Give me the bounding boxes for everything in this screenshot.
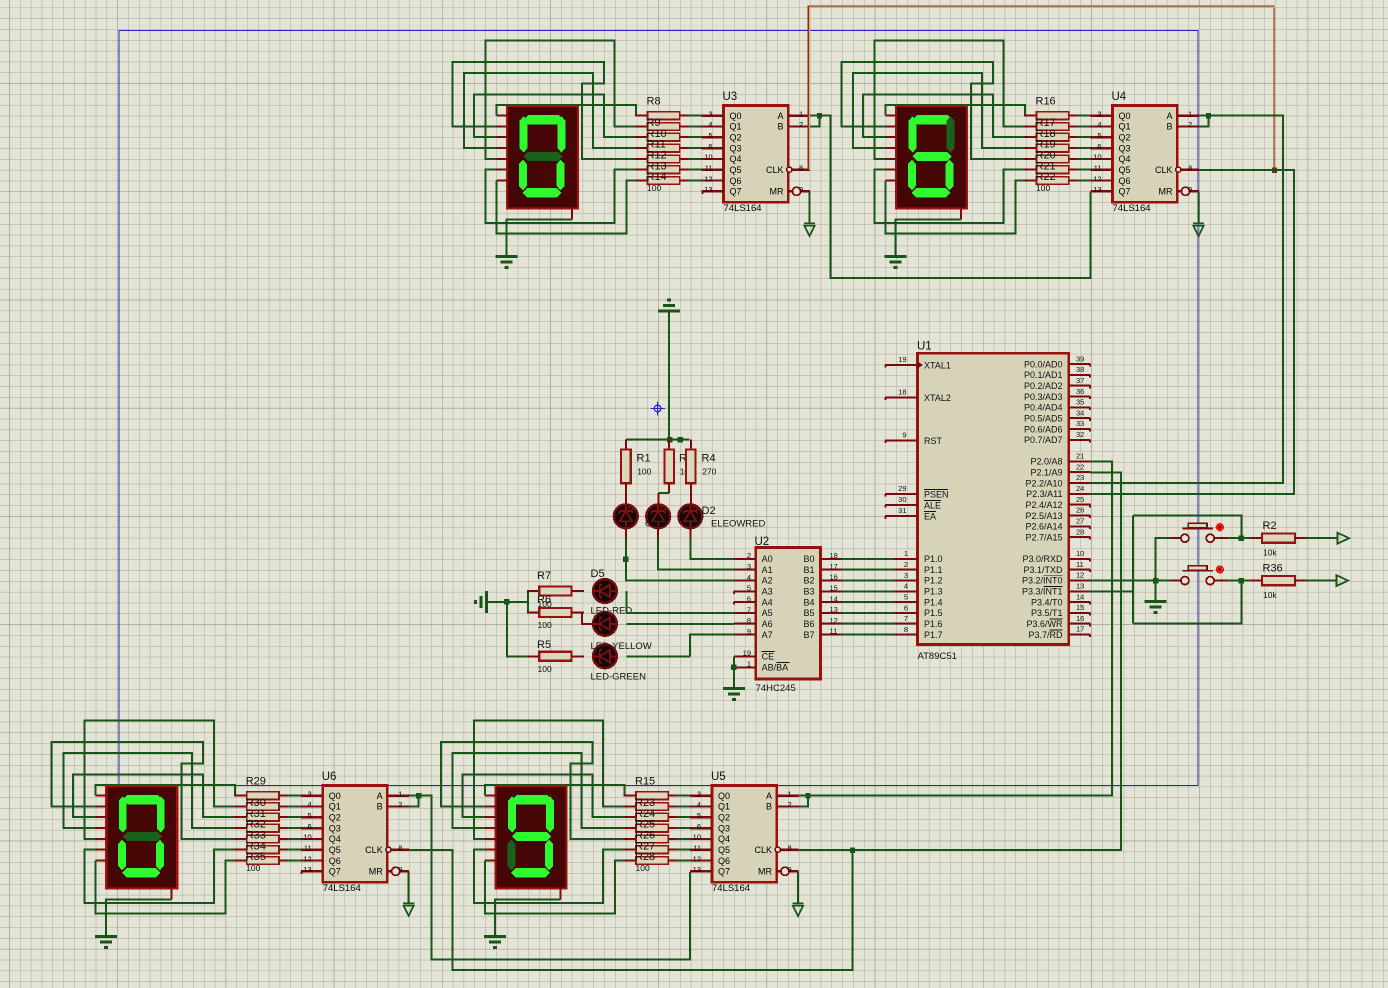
svg-text:10k: 10k xyxy=(1263,548,1277,558)
svg-text:10k: 10k xyxy=(1263,590,1277,600)
wire DISP2 pin6 to R row6 xyxy=(874,170,1023,224)
svg-text:Q1: Q1 xyxy=(329,802,341,812)
U1 pin 18 XTAL2 xyxy=(885,388,951,403)
svg-text:3: 3 xyxy=(308,789,312,798)
LED D5 (LED-RED) xyxy=(593,579,617,603)
wire DISP4 pin4 to R row4 xyxy=(453,753,624,828)
svg-text:P1.4: P1.4 xyxy=(924,597,943,607)
wire DISP4 pin6 to R row6 xyxy=(474,850,623,904)
svg-text:P3.4/T0: P3.4/T0 xyxy=(1031,597,1063,607)
wire DISP3 pin5 to R row2 xyxy=(85,721,234,839)
svg-text:Q7: Q7 xyxy=(730,187,742,197)
U1 pin 22 P2.1/A9 xyxy=(1030,462,1090,477)
junction P3.2 node xyxy=(1153,578,1158,583)
svg-text:R7: R7 xyxy=(537,570,551,582)
svg-text:B: B xyxy=(777,122,783,132)
svg-text:P2.0/A8: P2.0/A8 xyxy=(1030,457,1062,467)
svg-text:AT89C51: AT89C51 xyxy=(918,651,957,662)
svg-text:30: 30 xyxy=(898,495,906,504)
svg-text:R15: R15 xyxy=(635,775,655,787)
U1 pin 10 P3.0/RXD xyxy=(1022,549,1090,564)
U2 pin 15 B3 xyxy=(803,584,842,597)
svg-text:13: 13 xyxy=(1093,185,1101,194)
svg-text:5: 5 xyxy=(697,811,701,820)
svg-text:R8: R8 xyxy=(647,95,661,107)
wire U6 A-B tie xyxy=(409,796,419,807)
wire P2.1 to U5 CLK xyxy=(799,472,1122,850)
svg-text:2: 2 xyxy=(904,560,908,569)
svg-text:P0.6/AD6: P0.6/AD6 xyxy=(1024,424,1063,434)
U1 pin 3 P1.2 xyxy=(894,571,943,586)
svg-text:6: 6 xyxy=(1097,142,1101,151)
svg-text:B0: B0 xyxy=(803,554,814,564)
svg-text:RST: RST xyxy=(924,436,943,446)
wire DISP4 pin3 to R row3 xyxy=(462,775,623,818)
svg-text:R28: R28 xyxy=(635,851,655,863)
U1 pin 1 P1.0 xyxy=(894,549,943,564)
junction on D1 wire xyxy=(623,557,628,562)
svg-text:2: 2 xyxy=(398,800,402,809)
resistor network RN-U5 xyxy=(623,792,690,865)
svg-text:P3.5/T1: P3.5/T1 xyxy=(1031,608,1063,618)
svg-text:EA: EA xyxy=(924,512,936,522)
svg-text:5: 5 xyxy=(904,593,908,602)
U1 pin 31 EA xyxy=(885,506,936,521)
svg-text:MR: MR xyxy=(1159,187,1173,197)
svg-text:Q4: Q4 xyxy=(1119,154,1131,164)
svg-text:P0.5/AD5: P0.5/AD5 xyxy=(1024,414,1063,424)
svg-text:B: B xyxy=(1166,122,1172,132)
U2 pin 17 B1 xyxy=(803,562,842,575)
U1 pin 21 P2.0/A8 xyxy=(1030,452,1090,467)
svg-text:B4: B4 xyxy=(803,597,814,607)
LED D3 (middle of top trio) xyxy=(646,504,670,528)
svg-text:100: 100 xyxy=(538,620,552,630)
shift register U6 74LS164 xyxy=(301,786,409,895)
wire button1 to R2 xyxy=(1228,537,1251,539)
terminal arrow at R2 xyxy=(1338,533,1350,544)
svg-text:15: 15 xyxy=(1076,603,1084,612)
U1 pin 33 P0.6/AD6 xyxy=(1024,419,1091,434)
ground below display DISP2 xyxy=(885,257,907,268)
svg-text:A0: A0 xyxy=(762,554,773,564)
svg-text:P1.5: P1.5 xyxy=(924,608,943,618)
junction U4 A-B xyxy=(1206,113,1211,118)
shift register U5 74LS164 xyxy=(690,786,798,895)
wire P3.3 to button loops xyxy=(1091,516,1242,624)
U2 pin 11 B7 xyxy=(803,627,842,640)
svg-text:Q1: Q1 xyxy=(1119,122,1131,132)
svg-text:2: 2 xyxy=(788,800,792,809)
svg-text:A: A xyxy=(777,111,783,121)
svg-text:R16: R16 xyxy=(1036,95,1056,107)
svg-text:XTAL2: XTAL2 xyxy=(924,393,951,403)
resistor network RN-U6 xyxy=(234,792,301,865)
svg-text:39: 39 xyxy=(1076,354,1084,363)
wire DISP3 pin1 to R row1 xyxy=(96,785,235,796)
svg-text:A6: A6 xyxy=(762,619,773,629)
svg-text:12: 12 xyxy=(830,616,838,625)
svg-text:9: 9 xyxy=(398,865,402,874)
svg-text:8: 8 xyxy=(799,164,803,173)
svg-text:3: 3 xyxy=(904,571,908,580)
svg-text:Q5: Q5 xyxy=(1119,165,1131,175)
svg-text:MR: MR xyxy=(758,867,772,877)
svg-text:19: 19 xyxy=(743,649,751,658)
svg-text:CE: CE xyxy=(762,652,775,662)
svg-text:P3.1/TXD: P3.1/TXD xyxy=(1023,565,1063,575)
svg-text:CLK: CLK xyxy=(766,165,784,175)
svg-text:18: 18 xyxy=(898,388,906,397)
U2 pin 1 AB/BA xyxy=(734,660,789,673)
svg-text:8: 8 xyxy=(788,844,792,853)
svg-text:22: 22 xyxy=(1076,462,1084,471)
svg-text:Q1: Q1 xyxy=(730,122,742,132)
U1 pin 34 P0.5/AD5 xyxy=(1024,408,1091,423)
wire LED D2 anode to U2 A0 xyxy=(689,529,691,539)
svg-text:9: 9 xyxy=(799,185,803,194)
push button SW2 xyxy=(1171,565,1228,584)
wire DISP1 pin2 to R row5 xyxy=(453,62,635,159)
wire D6 anode to U2 A7 xyxy=(627,635,734,657)
svg-text:5: 5 xyxy=(747,584,751,593)
U2 pin 12 B6 xyxy=(803,616,842,629)
svg-text:10: 10 xyxy=(303,833,311,842)
U1 pin 6 P1.5 xyxy=(894,603,943,618)
LED D4 (LED-YELLOW) xyxy=(593,612,617,636)
wire P3.2 node up to button1 left xyxy=(1156,538,1171,580)
wire U2 CE to AB/BA xyxy=(733,656,735,667)
U1 pin 5 P1.4 xyxy=(894,593,943,608)
svg-text:6: 6 xyxy=(308,822,312,831)
svg-text:4: 4 xyxy=(308,800,312,809)
U2 pin 4 A2 xyxy=(734,573,773,586)
wire DISP3 pin3 to R row3 xyxy=(73,775,234,818)
wire U3 MR to power arrow xyxy=(809,191,811,223)
resistor network RN-U4 xyxy=(1024,112,1091,185)
wire DISP1 pin7 to R row7 xyxy=(497,181,635,234)
junction orange at U4 CLK net xyxy=(1272,167,1277,172)
svg-text:9: 9 xyxy=(747,627,751,636)
svg-text:MR: MR xyxy=(770,187,784,197)
svg-text:13: 13 xyxy=(693,865,701,874)
ground left of R7 (rotated) xyxy=(476,591,487,613)
svg-text:R6: R6 xyxy=(537,594,551,606)
wire R36 to terminal xyxy=(1306,580,1336,582)
ground below display DISP3 xyxy=(95,937,117,948)
svg-text:8: 8 xyxy=(747,616,751,625)
svg-text:4: 4 xyxy=(697,800,701,809)
U1 pin 11 P3.1/TXD xyxy=(1023,560,1090,575)
U2 pin 18 B0 xyxy=(803,551,842,564)
svg-text:P0.1/AD1: P0.1/AD1 xyxy=(1024,370,1063,380)
junction left ground node xyxy=(504,599,509,604)
wire DISP2 pin4 to R row4 xyxy=(853,73,1024,148)
svg-text:100: 100 xyxy=(647,183,661,193)
svg-text:13: 13 xyxy=(704,185,712,194)
resistor R3 xyxy=(664,440,674,493)
svg-text:16: 16 xyxy=(830,573,838,582)
U2 pin 14 B4 xyxy=(803,594,842,607)
U1 pin 8 P1.7 xyxy=(894,625,943,640)
svg-text:18: 18 xyxy=(830,551,838,560)
svg-text:5: 5 xyxy=(708,131,712,140)
U2 pin 19 CE xyxy=(734,649,775,662)
U1 pin 25 P2.4/A12 xyxy=(1025,495,1090,510)
U1 pin 23 P2.2/A10 xyxy=(1025,473,1090,488)
U1 pin 35 P0.4/AD4 xyxy=(1024,398,1091,413)
svg-text:A7: A7 xyxy=(762,630,773,640)
svg-text:1: 1 xyxy=(747,660,751,669)
svg-text:7: 7 xyxy=(904,614,908,623)
svg-text:15: 15 xyxy=(830,584,838,593)
buffer U2 74HC245 xyxy=(756,548,821,680)
svg-text:33: 33 xyxy=(1076,419,1084,428)
svg-text:21: 21 xyxy=(1076,452,1084,461)
svg-text:74HC245: 74HC245 xyxy=(756,683,796,694)
U1 pin 38 P0.1/AD1 xyxy=(1024,365,1091,380)
wire left ground to junction xyxy=(487,601,507,603)
resistor R6 xyxy=(527,608,584,617)
svg-text:8: 8 xyxy=(1188,164,1192,173)
svg-text:14: 14 xyxy=(830,594,838,603)
U1 pin 16 P3.6/WR xyxy=(1026,614,1090,629)
svg-text:A1: A1 xyxy=(762,565,773,575)
svg-text:Q5: Q5 xyxy=(329,845,341,855)
7-segment display DISP2 xyxy=(886,106,968,219)
U2 pin 2 A0 xyxy=(734,551,773,564)
push button SW1 xyxy=(1171,523,1228,542)
wire P3.2 to buttons and ground xyxy=(1091,580,1171,582)
junction rail at R3 xyxy=(667,437,672,442)
svg-text:12: 12 xyxy=(1076,571,1084,580)
svg-text:R2: R2 xyxy=(1263,520,1277,532)
U1 pin 32 P0.7/AD7 xyxy=(1024,430,1091,445)
svg-text:2: 2 xyxy=(799,120,803,129)
svg-text:6: 6 xyxy=(697,822,701,831)
svg-text:Q0: Q0 xyxy=(329,791,341,801)
wire DISP3 pin2 to R row5 xyxy=(52,742,234,839)
resistor network RN-U3 xyxy=(635,112,702,185)
resistor R36 xyxy=(1251,576,1307,585)
wire U5 Q7 to U6 A/B xyxy=(419,796,691,960)
svg-text:1: 1 xyxy=(799,109,803,118)
svg-text:PSEN: PSEN xyxy=(924,489,949,499)
svg-text:2: 2 xyxy=(747,551,751,560)
svg-text:10: 10 xyxy=(704,153,712,162)
svg-text:37: 37 xyxy=(1076,376,1084,385)
wire P2.3 to U4 CLK xyxy=(1091,170,1295,494)
svg-text:P2.4/A12: P2.4/A12 xyxy=(1025,500,1062,510)
LED D2 (right of top trio) xyxy=(678,504,702,528)
svg-text:35: 35 xyxy=(1076,398,1084,407)
svg-text:11: 11 xyxy=(705,164,713,173)
svg-text:P2.3/A11: P2.3/A11 xyxy=(1026,489,1062,499)
svg-text:3: 3 xyxy=(697,789,701,798)
svg-text:100: 100 xyxy=(246,863,260,873)
svg-text:P0.2/AD2: P0.2/AD2 xyxy=(1024,381,1063,391)
svg-text:3: 3 xyxy=(747,562,751,571)
svg-text:Q4: Q4 xyxy=(329,834,341,844)
svg-text:Q7: Q7 xyxy=(718,867,730,877)
svg-text:CLK: CLK xyxy=(1155,165,1173,175)
svg-text:74LS164: 74LS164 xyxy=(1113,203,1151,214)
wire DISP2 pin5 to R row2 xyxy=(874,41,1023,159)
svg-text:P1.7: P1.7 xyxy=(924,630,943,640)
ground below display DISP1 xyxy=(496,257,518,268)
U2 pin 13 B5 xyxy=(803,605,842,618)
svg-text:LED-GREEN: LED-GREEN xyxy=(591,672,647,683)
svg-text:P0.3/AD3: P0.3/AD3 xyxy=(1024,392,1063,402)
U2 pin 3 A1 xyxy=(734,562,773,575)
power-down terminal at U6 MR xyxy=(403,904,414,916)
svg-text:Q0: Q0 xyxy=(718,791,730,801)
svg-text:13: 13 xyxy=(1076,582,1084,591)
svg-text:CLK: CLK xyxy=(365,845,383,855)
U1 pin 39 P0.0/AD0 xyxy=(1024,354,1091,369)
svg-text:270: 270 xyxy=(702,466,716,476)
7-segment display DISP1 xyxy=(497,106,579,219)
wire P3.2 node down to ground xyxy=(1155,581,1157,602)
wire R3 jog to LED xyxy=(658,492,669,494)
svg-text:3: 3 xyxy=(708,109,712,118)
wire resistor rail xyxy=(626,439,690,441)
svg-text:31: 31 xyxy=(898,506,906,515)
svg-text:P2.6/A14: P2.6/A14 xyxy=(1025,522,1062,532)
U1 pin 17 P3.7/RD xyxy=(1028,625,1090,640)
wire DISP3 pin7 to R row7 xyxy=(96,861,234,914)
svg-text:11: 11 xyxy=(1076,560,1084,569)
svg-text:U3: U3 xyxy=(723,91,738,103)
wire LED D1 anode to U2 A2 xyxy=(625,529,627,539)
wire U3 A-B tie xyxy=(810,116,820,127)
svg-text:Q3: Q3 xyxy=(329,823,341,833)
svg-text:6: 6 xyxy=(708,142,712,151)
wire DISP3 display common to ground xyxy=(106,899,171,936)
svg-text:100: 100 xyxy=(636,863,650,873)
wire U5 A-B tie xyxy=(799,796,809,807)
svg-text:A2: A2 xyxy=(762,576,773,586)
svg-text:2: 2 xyxy=(1188,120,1192,129)
svg-text:A: A xyxy=(377,791,383,801)
wire DISP4 pin7 to R row7 xyxy=(485,861,623,914)
U1 pin 26 P2.5/A13 xyxy=(1025,506,1090,521)
svg-text:Q5: Q5 xyxy=(730,165,742,175)
U2 pin 5 A3 xyxy=(733,584,772,597)
svg-text:P2.2/A10: P2.2/A10 xyxy=(1025,478,1062,488)
resistor R4 xyxy=(686,440,696,504)
svg-text:Q3: Q3 xyxy=(1119,143,1131,153)
wire junction to R7/R6 xyxy=(507,591,528,612)
svg-text:B6: B6 xyxy=(803,619,814,629)
power rail ground (top, inverted) xyxy=(658,300,680,311)
wire DISP1 pin3 to R row3 xyxy=(474,95,635,138)
svg-text:9: 9 xyxy=(902,431,906,440)
svg-text:R1: R1 xyxy=(637,453,651,465)
svg-text:1: 1 xyxy=(398,789,402,798)
svg-text:R22: R22 xyxy=(1036,171,1056,183)
junction rail right xyxy=(677,437,682,442)
svg-text:Q1: Q1 xyxy=(718,802,730,812)
svg-text:9: 9 xyxy=(788,865,792,874)
svg-text:ELEOWRED: ELEOWRED xyxy=(711,519,766,530)
7-segment display DISP3 xyxy=(96,786,178,899)
wire DISP1 pin5 to R row2 xyxy=(485,41,634,159)
wire top ground to resistor rail xyxy=(668,311,670,440)
svg-text:P3.0/RXD: P3.0/RXD xyxy=(1022,554,1063,564)
svg-text:17: 17 xyxy=(830,562,838,571)
svg-text:Q6: Q6 xyxy=(730,176,742,186)
power-down terminal at U5 MR xyxy=(792,904,803,916)
svg-text:Q6: Q6 xyxy=(329,856,341,866)
svg-text:9: 9 xyxy=(1188,185,1192,194)
U1 pin 4 P1.3 xyxy=(894,582,943,597)
svg-text:B3: B3 xyxy=(803,587,814,597)
wire P2.2 to U4 A/B xyxy=(1091,116,1284,483)
7-segment display DISP4 xyxy=(485,786,567,899)
wire DISP4 pin5 to R row2 xyxy=(474,721,623,839)
svg-text:24: 24 xyxy=(1076,484,1084,493)
svg-text:P1.6: P1.6 xyxy=(924,619,943,629)
svg-text:Q2: Q2 xyxy=(1119,133,1131,143)
shift register U4 74LS164 xyxy=(1091,106,1199,215)
U1 pin 24 P2.3/A11 xyxy=(1026,484,1090,499)
svg-text:B: B xyxy=(377,802,383,812)
wire DISP1 pin6 to R row6 xyxy=(485,170,634,224)
wire DISP3 pin4 to R row4 xyxy=(63,753,234,828)
svg-text:29: 29 xyxy=(898,484,906,493)
svg-text:36: 36 xyxy=(1076,387,1084,396)
U2 pin 6 A4 xyxy=(733,595,772,608)
svg-text:10: 10 xyxy=(1093,153,1101,162)
wire U4 A-B tie xyxy=(1199,116,1209,127)
svg-text:P3.2/INT0: P3.2/INT0 xyxy=(1022,576,1063,586)
svg-text:R14: R14 xyxy=(647,171,667,183)
svg-text:Q4: Q4 xyxy=(718,834,730,844)
svg-text:P3.7/RD: P3.7/RD xyxy=(1028,630,1063,640)
svg-text:Q6: Q6 xyxy=(1119,176,1131,186)
wires U2 B0-B7 to U1 P1.0-P1.7 xyxy=(842,559,894,635)
svg-text:B: B xyxy=(766,802,772,812)
svg-text:10: 10 xyxy=(693,833,701,842)
U1 pin 27 P2.6/A14 xyxy=(1025,517,1090,532)
svg-text:Q3: Q3 xyxy=(730,143,742,153)
svg-text:7: 7 xyxy=(747,605,751,614)
ground below U2 xyxy=(723,689,745,700)
svg-text:3: 3 xyxy=(1097,109,1101,118)
wire R2 to terminal xyxy=(1306,537,1337,539)
LED D1 (red, left of top trio) xyxy=(614,504,638,528)
svg-text:11: 11 xyxy=(1094,164,1102,173)
wire DISP3 pin6 to R row6 xyxy=(85,850,234,904)
svg-text:U2: U2 xyxy=(755,536,770,548)
svg-text:R35: R35 xyxy=(246,851,266,863)
wire junction down to R5 xyxy=(507,602,527,656)
svg-text:11: 11 xyxy=(304,844,312,853)
svg-text:D5: D5 xyxy=(591,568,605,580)
svg-text:LED-YELLOW: LED-YELLOW xyxy=(591,641,652,652)
svg-text:17: 17 xyxy=(1076,625,1084,634)
svg-text:P1.0: P1.0 xyxy=(924,554,943,564)
svg-text:26: 26 xyxy=(1076,506,1084,515)
wire (orange) U3 CLK to U4 CLK net xyxy=(808,6,1274,170)
svg-text:A4: A4 xyxy=(762,597,773,607)
svg-text:38: 38 xyxy=(1076,365,1084,374)
svg-text:6: 6 xyxy=(747,595,751,604)
wire DISP2 pin7 to R row7 xyxy=(886,181,1024,234)
svg-text:8: 8 xyxy=(904,625,908,634)
svg-text:P0.0/AD0: P0.0/AD0 xyxy=(1024,359,1063,369)
